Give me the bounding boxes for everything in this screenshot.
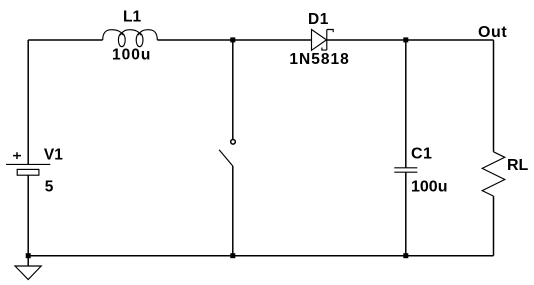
switch S1 — [219, 140, 235, 167]
svg-text:Out: Out — [478, 24, 507, 41]
inductor L1 — [103, 30, 158, 47]
bottom wire rail — [28, 255, 493, 257]
wire battery bottom to ground rail — [27, 175, 29, 256]
switch S1 vertical lower wire — [232, 166, 234, 256]
svg-text:5: 5 — [45, 179, 54, 196]
wire left vertical from top to battery — [27, 40, 29, 164]
node junction dot (ground T) — [26, 253, 31, 258]
svg-text:100u: 100u — [411, 179, 447, 196]
wire top segment from V1 to L1 — [28, 39, 103, 41]
battery V1 — [6, 152, 50, 175]
node junction dot (C1 top) — [403, 37, 408, 42]
wire right vertical top (Out to RL) — [493, 40, 495, 152]
ground — [15, 256, 41, 280]
wire right vertical bottom (RL to rail) — [493, 196, 495, 256]
svg-text:1N5818: 1N5818 — [289, 51, 349, 68]
capacitor C1 — [394, 168, 417, 172]
node junction dot (C1 bottom) — [403, 253, 408, 258]
svg-text:C1: C1 — [411, 146, 432, 163]
svg-text:RL: RL — [507, 157, 529, 174]
diode D1 (Schottky) — [312, 30, 334, 51]
wire C1 top vertical — [405, 40, 407, 168]
svg-text:100u: 100u — [112, 47, 151, 64]
switch S1 vertical upper wire — [232, 40, 234, 139]
node junction dot (switch bottom) — [230, 253, 235, 258]
node junction dot (switch top) — [230, 37, 235, 42]
resistor RL — [482, 152, 505, 196]
wire C1 bottom vertical — [405, 172, 407, 256]
wire from L1 to D1 — [157, 39, 311, 41]
svg-text:L1: L1 — [123, 9, 141, 26]
wire from D1 to Out corner — [327, 39, 494, 41]
svg-text:D1: D1 — [308, 11, 329, 28]
svg-text:V1: V1 — [44, 146, 63, 163]
